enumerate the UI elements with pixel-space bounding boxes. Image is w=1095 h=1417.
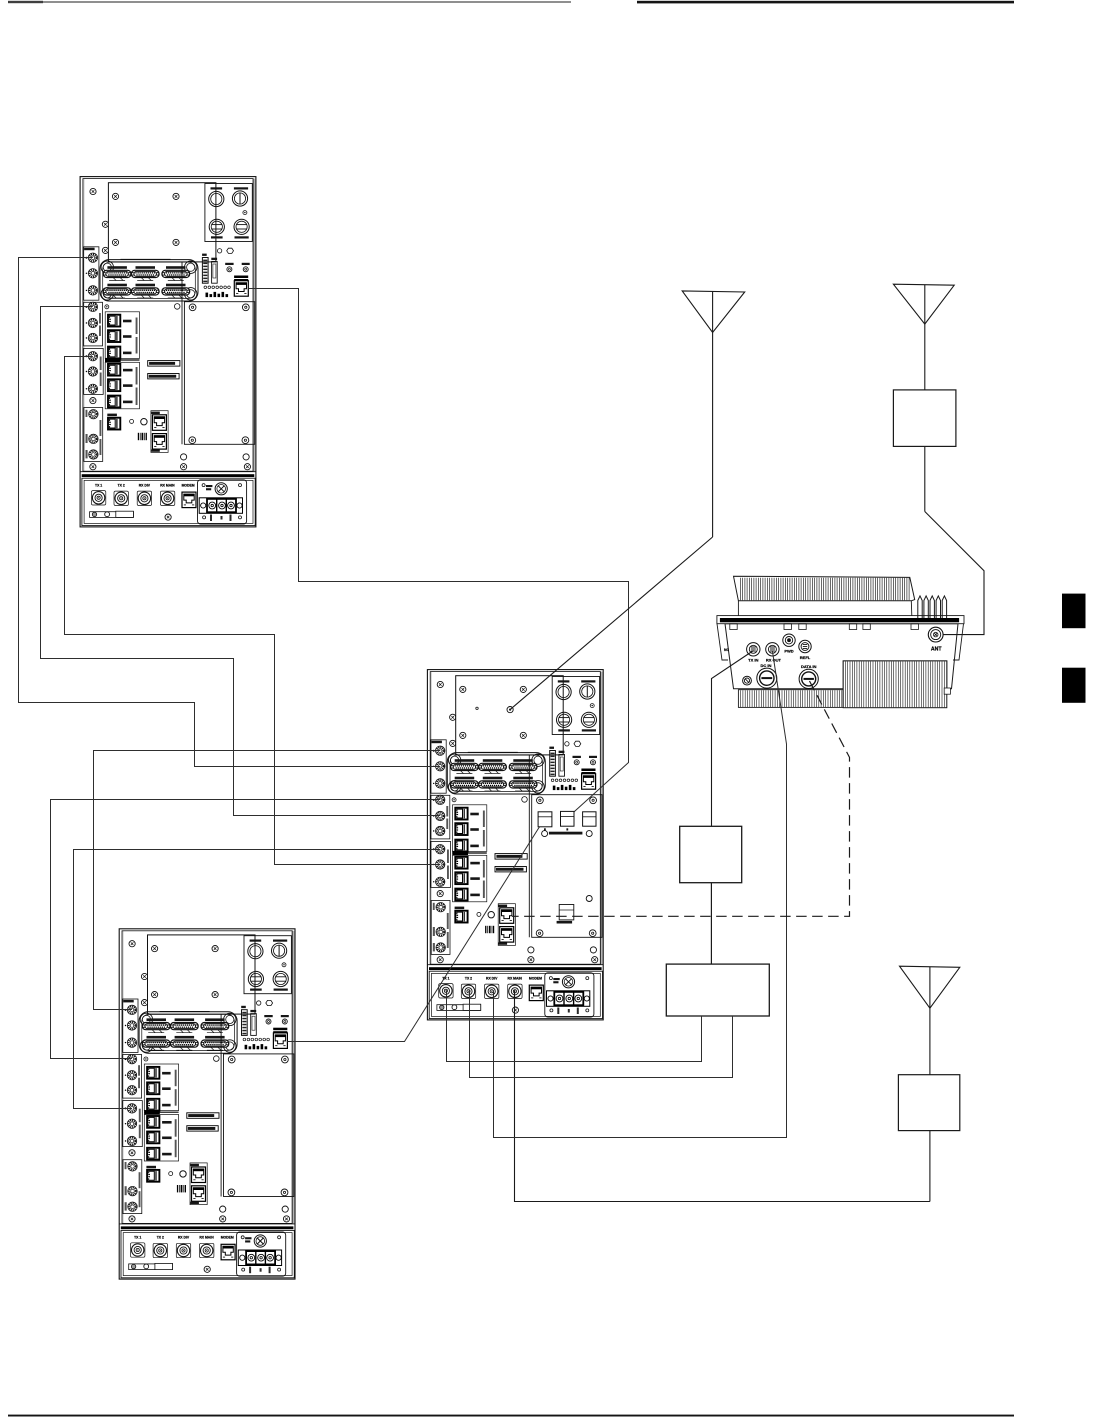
TTA TX IN connector	[747, 643, 760, 656]
expansion SDC port 1	[538, 812, 552, 827]
antenna 2 (top right)	[893, 284, 984, 634]
TTA spike fins	[918, 596, 947, 618]
section tab 2	[1062, 668, 1086, 703]
wire: combiner leg 2 to middle cabinet TX2	[470, 990, 733, 1077]
wire: combiner leg 1 to middle cabinet TX1	[447, 990, 702, 1061]
antenna 3 (bottom right)	[515, 966, 960, 1201]
TTA DATA IN connector	[799, 669, 818, 688]
TTA REFL connector	[799, 640, 811, 652]
bottom antenna box	[898, 1075, 959, 1131]
filter box (small)	[680, 826, 742, 882]
TTA PWD connector	[783, 634, 795, 646]
tower top amplifier unit	[717, 576, 964, 708]
TTA labels	[724, 646, 942, 669]
svg-text:DATA IN: DATA IN	[801, 664, 817, 669]
antenna 1 (top left)	[510, 291, 745, 710]
svg-text:PWD: PWD	[784, 648, 793, 653]
TTA ANT connector	[928, 627, 943, 642]
svg-text:NC: NC	[724, 648, 729, 652]
section tab 1	[1062, 594, 1086, 629]
wire: TX IN to filter box	[712, 651, 754, 827]
wire: middle cabinet EXP TX 1 to bottom cabinet EXP TX 1	[94, 751, 441, 1010]
svg-text:ANT: ANT	[931, 646, 942, 652]
expansion SDC port 2	[561, 811, 575, 826]
expansion cabinet 1 (top left)	[80, 177, 256, 527]
svg-text:TX IN: TX IN	[748, 658, 758, 663]
TTA RX OUT connector	[766, 643, 779, 656]
rx antenna box (right)	[893, 390, 956, 447]
TTA ground screw	[743, 676, 752, 685]
TTA body	[717, 624, 964, 689]
TTA mounting flange	[717, 616, 964, 630]
page top rule	[8, 1, 1014, 4]
wire: top cabinet RX MAIN 1 to middle cabinet RX MAIN 2	[41, 307, 441, 816]
TTA bottom right heatsink	[843, 661, 950, 708]
wire: top cabinet SYS EXP to middle cabinet expansion port 2	[248, 289, 628, 816]
wire: middle cabinet RX DIV 1 to bottom cabinet RX DIV 1	[74, 850, 441, 1109]
wire: top cabinet RX DIVERSITY 1 to middle cabinet RX DIV 2	[65, 357, 441, 865]
TTA DC IN connector	[757, 668, 777, 688]
expansion SDC port 3	[583, 812, 596, 826]
TTA bottom left heatsink	[738, 690, 843, 708]
combiner box (large)	[666, 964, 769, 1016]
expansion SDC screws and label	[542, 828, 593, 836]
expansion cabinet 2 (middle)	[427, 670, 603, 1020]
wire: bottom cabinet SYS EXP to middle cabinet expansion port 1	[287, 818, 545, 1042]
dashed wire: DATA IN to middle cabinet CPS-A	[512, 681, 850, 916]
svg-text:DC IN: DC IN	[761, 663, 772, 668]
wire: top cabinet EXP TX 1 to middle cabinet EXP TX 2	[19, 258, 441, 767]
middle cabinet plate center screw	[476, 707, 513, 713]
wire: middle cabinet RX MAIN 1 to bottom cabinet RX MAIN 1	[51, 800, 441, 1059]
wire: RX OUT to middle cabinet RX DIV	[494, 651, 787, 1138]
wire: filter box to combiner box	[710, 883, 712, 964]
TTA top heatsink	[734, 576, 915, 615]
expansion cabinet 3 (bottom left)	[119, 929, 295, 1279]
svg-text:REFL: REFL	[800, 655, 811, 660]
FWD TRL connector	[557, 896, 593, 924]
page bottom rule	[8, 1415, 1014, 1417]
